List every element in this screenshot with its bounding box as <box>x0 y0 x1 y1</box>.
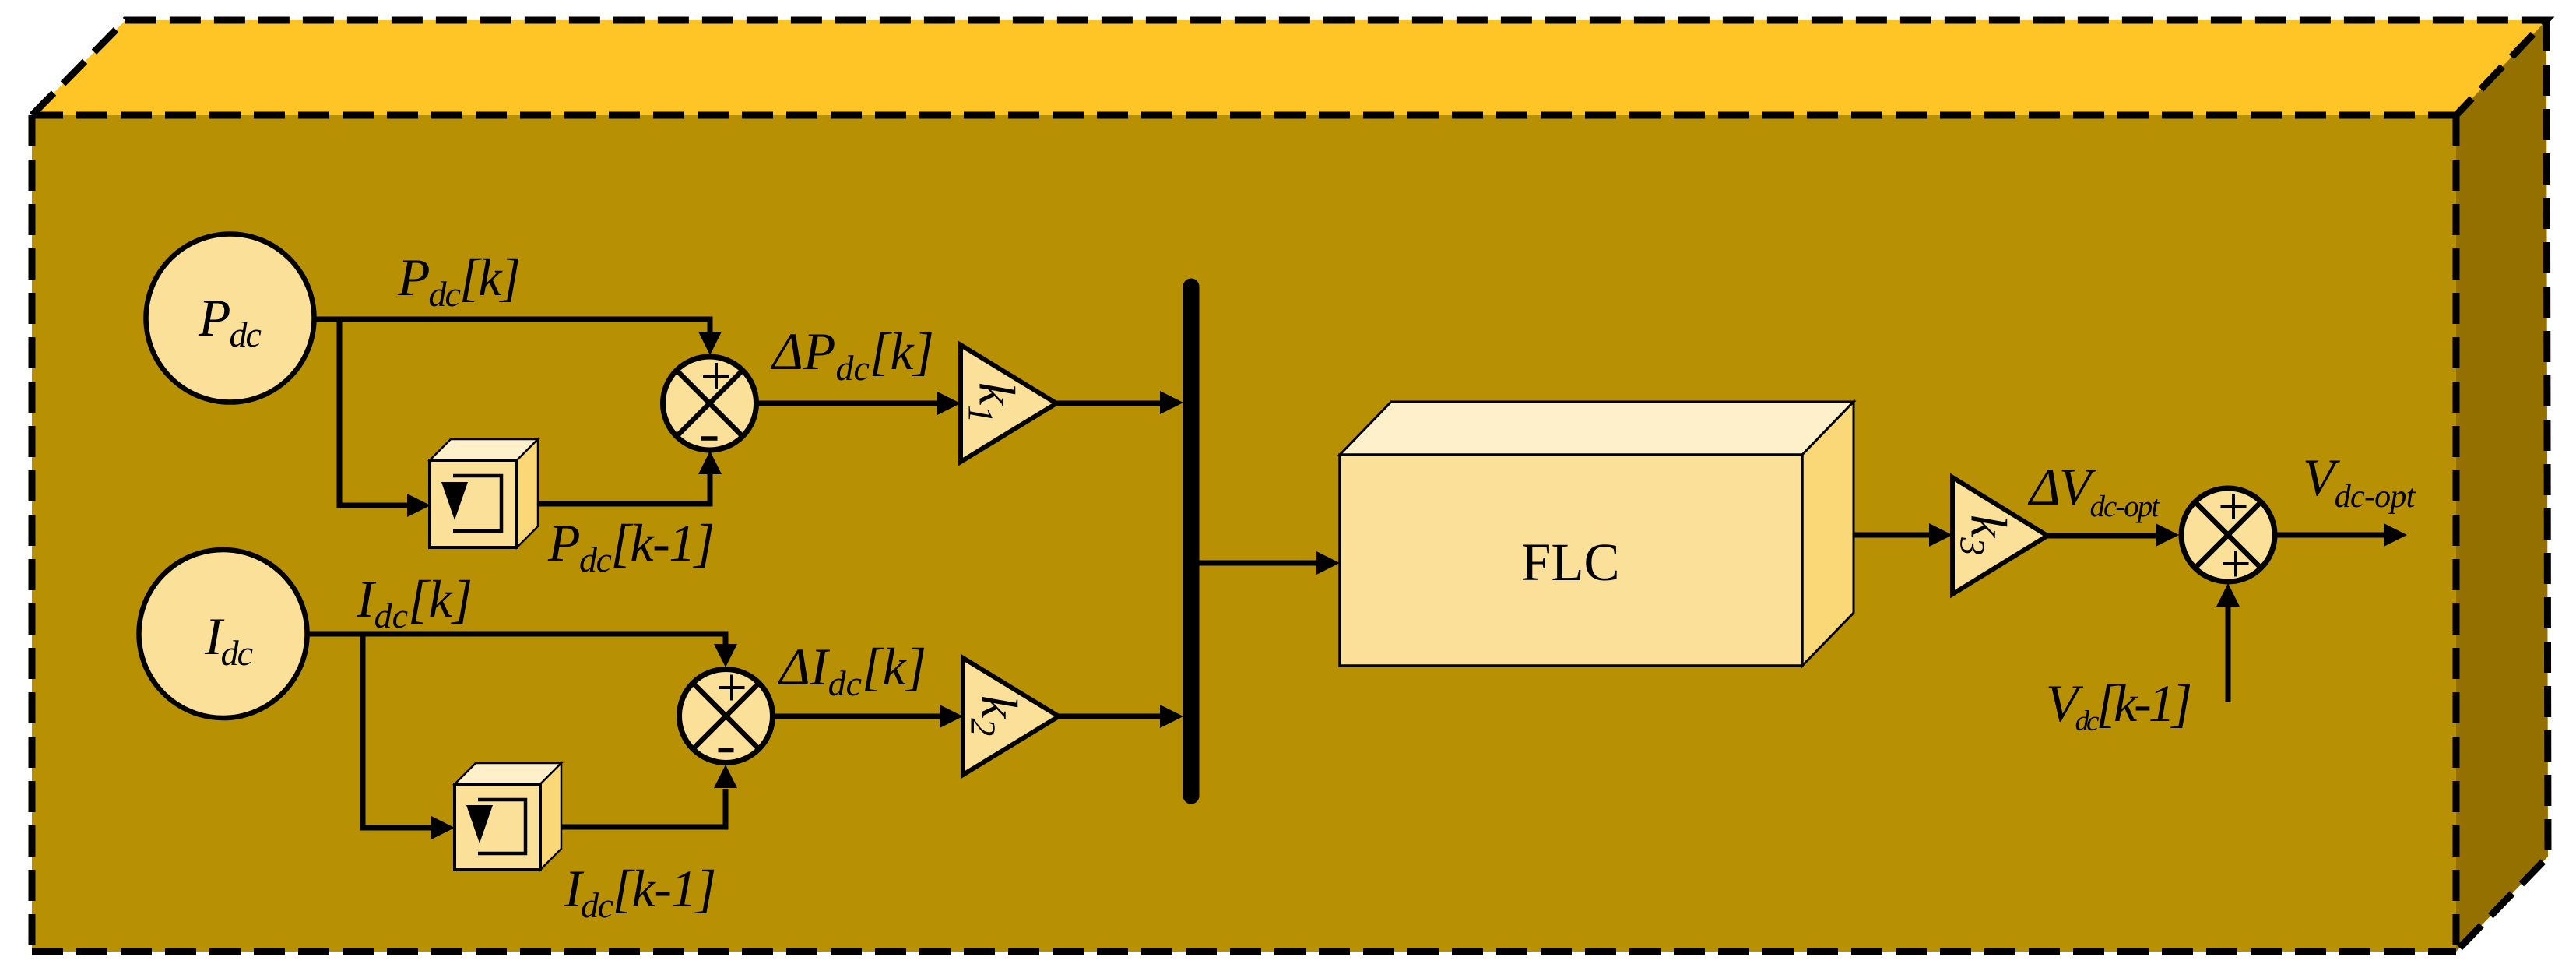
svg-text:Idc[k]: Idc[k] <box>356 569 473 635</box>
svg-text:Pdc[k-1]: Pdc[k-1] <box>547 513 714 579</box>
svg-text:Vdc[k-1]: Vdc[k-1] <box>2046 674 2191 737</box>
svg-text:FLC: FLC <box>1521 533 1620 592</box>
